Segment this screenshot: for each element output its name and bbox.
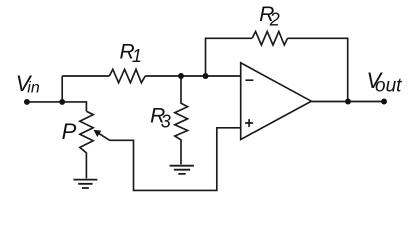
svg-text:2: 2 xyxy=(269,10,280,30)
node Vin terminal dot xyxy=(24,99,30,105)
resistor R2 xyxy=(252,32,287,46)
node output junction dot xyxy=(345,99,351,105)
op-amp U1 xyxy=(241,63,312,140)
node R3 top junction dot xyxy=(178,73,184,79)
potentiometer wiper arrow xyxy=(94,130,102,137)
wire junction A up xyxy=(61,76,63,102)
svg-text:P: P xyxy=(62,119,77,144)
wire wiper to op-amp + input xyxy=(97,128,241,191)
wire upper left to R1 xyxy=(62,75,109,77)
wire R1 to op-amp inverting input xyxy=(145,75,241,77)
ground (R3) xyxy=(170,166,194,174)
node Vout terminal dot xyxy=(381,99,387,105)
potentiometer P body xyxy=(80,111,93,178)
resistor R1 xyxy=(109,69,145,83)
op-amp minus symbol xyxy=(246,79,254,81)
resistor R3 xyxy=(175,76,188,164)
wire Vin horizontal to pot top xyxy=(27,102,87,111)
node junction A dot xyxy=(59,99,65,105)
ground (potentiometer) xyxy=(73,180,97,188)
node R2 branch junction dot xyxy=(203,73,209,79)
wire op-amp output to Vout xyxy=(311,101,384,103)
op-amp plus symbol xyxy=(245,119,253,127)
wire R2 to output node xyxy=(288,38,348,101)
svg-text:1: 1 xyxy=(132,46,142,66)
svg-text:out: out xyxy=(375,76,402,97)
svg-text:in: in xyxy=(27,80,40,97)
wire R2 branch up and across xyxy=(206,38,253,76)
svg-text:3: 3 xyxy=(161,112,171,132)
